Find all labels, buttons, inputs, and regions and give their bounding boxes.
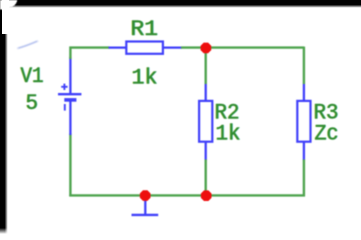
wire: top-left corner, V1 to R1 left lead (green) [70, 48, 109, 59]
node A junction dot (R1/R2/R3 net) [201, 43, 212, 54]
resistor R1 body [126, 42, 163, 54]
wire: battery V1 positive lead up to top-left corner (blue stub) [69, 57, 71, 94]
svg-text:R1: R1 [131, 16, 159, 42]
wire: R2 bottom lead to ground node (green) [204, 160, 206, 196]
label V1 (reference) [20, 63, 45, 89]
battery V1 negative plate [64, 98, 76, 102]
battery V1 positive plate [58, 93, 81, 95]
label R3 value Zc [314, 121, 340, 147]
label R1 value 1k [131, 65, 159, 91]
resistor R3 body [297, 101, 310, 142]
wire: top-right corner down to R3 top lead (green) [303, 47, 305, 84]
battery V1 plus sign [61, 84, 67, 90]
label R3 (reference) [313, 99, 340, 125]
svg-text:1k: 1k [132, 65, 158, 91]
label R2 value 1k [215, 120, 242, 146]
wire: R3 bottom lead to bottom-right corner (green) [303, 160, 305, 197]
wire: node A down to R2 top lead (green) [204, 48, 206, 84]
ground node junction dot at R2 bottom [201, 190, 212, 201]
label R2 (reference) [214, 99, 241, 125]
label R1 (reference) [130, 16, 159, 42]
resistor R3 top lead [303, 84, 305, 102]
resistor R3 bottom lead [303, 141, 305, 160]
svg-text:Zc: Zc [315, 121, 339, 147]
resistor R1 left lead [109, 46, 128, 48]
wire: battery V1 negative lead down to bottom-left corner (green) [69, 134, 71, 197]
wire: battery V1 negative lead (blue stub) [69, 101, 71, 136]
svg-text:5: 5 [26, 90, 39, 116]
label V1 value 5 [25, 90, 39, 116]
resistor R1 right lead [162, 46, 182, 48]
wire: R1 right lead to node A and top-right corner (green) [181, 46, 304, 48]
svg-text:V1: V1 [21, 63, 44, 89]
battery V1 minus tick [64, 104, 66, 111]
ground node junction dot at ground symbol [140, 190, 151, 201]
resistor R2 body [199, 101, 212, 142]
resistor R2 top lead [205, 84, 207, 102]
wire: bottom rail, battery to bottom-right corner (green) [69, 194, 305, 196]
resistor R2 bottom lead [205, 141, 207, 160]
svg-text:1k: 1k [216, 120, 241, 146]
ground symbol [132, 195, 159, 215]
